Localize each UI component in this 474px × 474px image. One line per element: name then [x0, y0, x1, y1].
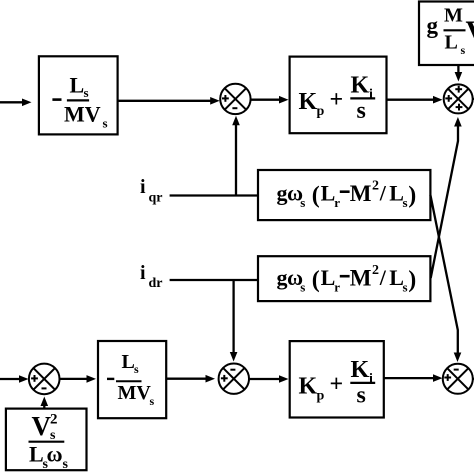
svg-text:L: L — [321, 265, 336, 290]
svg-text:2: 2 — [50, 412, 58, 428]
svg-text:2: 2 — [372, 179, 379, 194]
svg-text:V: V — [466, 15, 474, 48]
summing junction S3 (bottom left): + left, - bottom — [29, 364, 60, 395]
svg-text:p: p — [317, 104, 325, 119]
wire W18: B4 output up into S3 bottom — [41, 397, 49, 409]
PI block K1: Kp + Ki/s (top) — [290, 57, 387, 134]
svg-text:qr: qr — [149, 191, 163, 206]
decoupling block G2: g ws (Lr - M2/Ls) (lower) — [258, 256, 430, 301]
svg-text:M: M — [444, 5, 463, 27]
svg-text:g: g — [427, 13, 439, 38]
svg-text:s: s — [300, 195, 305, 210]
svg-text:MV: MV — [64, 102, 101, 127]
svg-text:+: + — [330, 87, 344, 113]
svg-text:K: K — [299, 89, 318, 115]
summing junction S2 (top right): + top, + left, + bottom — [444, 84, 473, 113]
gain block B3: g M/Ls V (top right, clipped) — [419, 2, 474, 66]
svg-text:p: p — [317, 389, 325, 404]
svg-text:L: L — [29, 442, 44, 467]
decoupling block G1: g ws (Lr - M2/Ls) (upper) — [258, 170, 430, 220]
wire W1: input arrow into block B1 — [0, 99, 32, 107]
wire W12: input arrow into summing junction S3 — [0, 375, 29, 383]
svg-text:s: s — [84, 85, 89, 100]
svg-text:M: M — [350, 181, 372, 206]
svg-text:L: L — [70, 73, 85, 98]
svg-text:i: i — [369, 372, 373, 387]
svg-text:g: g — [277, 265, 288, 290]
svg-text:r: r — [334, 195, 340, 210]
gain block B2: -Ls/MVs (bottom) — [98, 341, 166, 418]
svg-text:s: s — [357, 383, 366, 409]
wire W3: S1 output to PI block K1 — [251, 96, 289, 104]
wire D2: G2 output diagonal up into S2 bottom — [431, 117, 462, 278]
svg-text:s: s — [103, 116, 108, 131]
wire W17: S5 output stub at right edge — [473, 378, 474, 380]
wire W5: S2 output stub at right edge — [473, 98, 474, 100]
svg-text:(: ( — [312, 267, 320, 293]
svg-text:V: V — [32, 411, 52, 441]
svg-text:): ) — [408, 267, 416, 293]
wire W10: i_dr line into decoupling block G2 — [170, 279, 258, 281]
svg-text:s: s — [134, 362, 139, 376]
svg-text:2: 2 — [372, 263, 379, 278]
wire W14: B2 output to summing junction S4 — [166, 375, 215, 383]
svg-text:dr: dr — [149, 276, 163, 291]
svg-text:L: L — [321, 181, 336, 206]
svg-text:L: L — [445, 32, 458, 54]
svg-text:i: i — [140, 176, 146, 198]
svg-text:L: L — [122, 351, 135, 373]
svg-text:(: ( — [312, 183, 320, 209]
svg-text:s: s — [357, 98, 366, 124]
svg-text:i: i — [140, 262, 146, 284]
svg-text:g: g — [277, 181, 288, 206]
svg-text:s: s — [403, 195, 408, 210]
node label i_dr — [140, 262, 163, 291]
wire W9: branch from i_qr line up into S1 bottom — [232, 116, 240, 196]
svg-text:/: / — [379, 181, 387, 206]
svg-text:): ) — [408, 183, 416, 209]
summing junction S5 (bottom right): - top, + left — [443, 364, 473, 394]
wire W8: i_qr line into decoupling block G1 — [170, 194, 258, 196]
summing junction S4 (bottom middle): - top, + left — [219, 364, 249, 394]
svg-text:s: s — [63, 457, 69, 472]
wire D1: G1 output diagonal down into S5 top — [430, 195, 461, 362]
svg-text:s: s — [150, 394, 155, 408]
svg-text:s: s — [300, 280, 305, 295]
gain block B1: -Ls/MVs — [39, 56, 118, 134]
svg-text:MV: MV — [118, 382, 152, 404]
svg-text:ω: ω — [47, 442, 63, 467]
svg-text:i: i — [369, 87, 373, 102]
wire W2: B1 output to summing junction S1 — [118, 97, 220, 105]
svg-text:+: + — [330, 372, 344, 398]
svg-text:K: K — [351, 357, 370, 383]
wire W11: branch from i_dr line down into S4 top — [230, 280, 238, 362]
wire W16: K2 output to summing junction S5 — [384, 374, 443, 382]
svg-text:K: K — [299, 374, 318, 400]
node label i_qr — [140, 176, 163, 205]
summing junction S1 (top middle): + left, - bottom — [220, 84, 250, 114]
wire W4: K1 output to summing junction S2 — [387, 96, 443, 104]
svg-text:s: s — [403, 280, 408, 295]
svg-text:M: M — [350, 266, 372, 291]
PI block K2: Kp + Ki/s (bottom) — [290, 341, 384, 417]
wire W13: S3 output to gain block B2 — [60, 375, 97, 383]
svg-text:r: r — [334, 280, 340, 295]
gain block B4: Vs^2 / Ls ws (bottom left) — [6, 409, 87, 472]
svg-text:/: / — [379, 265, 387, 290]
wire W15: S4 output to PI block K2 — [249, 375, 289, 383]
svg-text:K: K — [351, 73, 370, 99]
wire W6: B3 output down into S2 top — [455, 65, 463, 82]
